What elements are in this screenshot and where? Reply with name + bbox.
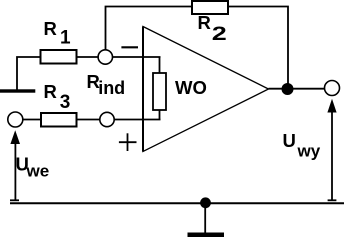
label Uwy (283, 130, 321, 161)
resistor R2 (192, 1, 228, 14)
plus input sign (119, 133, 137, 151)
output terminal circle Uwy (325, 81, 340, 96)
resistor Rind stub top (159, 57, 161, 73)
label R2 (198, 12, 227, 45)
node circle at inverting input (98, 50, 112, 64)
Uwe voltage arrow (10, 130, 20, 200)
output wire from apex (269, 88, 325, 90)
resistor Rind (153, 73, 166, 110)
wire minus input to triangle (112, 56, 160, 58)
svg-text:2: 2 (212, 24, 227, 45)
resistor R1 (41, 50, 77, 64)
ground rail wire (10, 202, 344, 204)
label Rind (87, 71, 126, 98)
feedback wire right and down to output (228, 7, 288, 86)
label R3 (44, 81, 71, 113)
svg-text:R: R (44, 18, 57, 39)
node circle at non-inverting input (100, 112, 114, 126)
svg-text:wy: wy (297, 142, 321, 161)
input terminal circle Uwe (8, 112, 23, 127)
Uwy voltage arrow (327, 99, 336, 201)
ground junction dot (200, 197, 211, 208)
label Uwe (16, 154, 50, 181)
resistor R3 (41, 113, 77, 127)
svg-text:1: 1 (60, 28, 71, 49)
wire terminal to R3 (23, 119, 41, 121)
svg-text:R: R (44, 81, 57, 102)
svg-text:3: 3 (60, 92, 71, 113)
svg-text:WO: WO (175, 77, 207, 98)
resistor Rind stub bottom (159, 110, 161, 120)
minus input sign (121, 46, 138, 48)
label R1 (44, 18, 72, 48)
ground stem wire (204, 203, 206, 233)
svg-text:R: R (198, 12, 211, 33)
wire plus input to triangle (114, 119, 160, 121)
wire R3 to node (77, 119, 101, 121)
op-amp U1 triangle (143, 27, 269, 152)
svg-text:we: we (26, 161, 50, 180)
left supply bar (0, 89, 35, 92)
svg-text:ind: ind (98, 78, 125, 98)
feedback wire up from node (106, 7, 193, 50)
wire R1 right to node (77, 56, 99, 58)
svg-text:U: U (283, 130, 296, 151)
ground bar (188, 233, 225, 238)
output junction dot (282, 83, 294, 95)
wire R1 left (17, 57, 41, 91)
